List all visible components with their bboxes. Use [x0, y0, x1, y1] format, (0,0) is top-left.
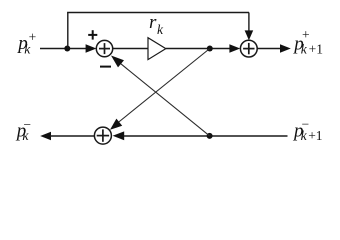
wire: cross branch from forward node down to adder A3	[110, 49, 210, 130]
svg-text:−: −	[302, 117, 310, 132]
svg-text:+1: +1	[308, 128, 322, 143]
node label p_k^+ (forward input)	[16, 30, 36, 57]
adder A2 (summing junction)	[240, 40, 257, 57]
wire: adder A2 output to p_k+1^+	[257, 44, 291, 53]
wire: adder A3 output to p_k^-	[40, 132, 95, 141]
svg-text:+: +	[302, 27, 310, 42]
node label p_k+1^+ (forward output)	[292, 27, 323, 56]
svg-text:r: r	[149, 12, 157, 33]
node label p_k+1^- (backward input)	[292, 117, 323, 144]
svg-text:+1: +1	[309, 41, 323, 56]
wire: bypass drop into adder A2	[245, 13, 254, 41]
value label r_k	[149, 12, 164, 37]
label - (A1 lower input sign)	[100, 66, 111, 68]
wire: p_k+1^- to adder A3	[113, 131, 288, 140]
gain triangle (multiplier r_k)	[148, 38, 166, 60]
adder A1 (summing junction, +/-)	[96, 40, 112, 56]
wire: cross branch from backward node up to adder A1 minus input	[111, 56, 210, 136]
junction node on backward wire	[207, 133, 213, 139]
junction node on forward input	[64, 46, 70, 52]
svg-text:+: +	[29, 30, 37, 45]
svg-text:k: k	[157, 22, 164, 37]
svg-text:k: k	[301, 41, 308, 56]
node label p_k^- (backward output)	[15, 117, 31, 143]
svg-text:−: −	[23, 117, 31, 132]
wire: p_k^+ to adder A1	[40, 44, 96, 53]
adder A3 (summing junction, backward path)	[94, 127, 111, 144]
junction node after gain triangle	[207, 46, 213, 52]
label + (A1 upper input sign)	[88, 30, 97, 39]
wire: adder A1 to gain triangle	[113, 48, 149, 50]
wire: top bypass horizontal	[67, 12, 249, 14]
wire: bypass riser from junction	[67, 13, 69, 49]
wire: gain triangle to adder A2	[166, 44, 240, 53]
